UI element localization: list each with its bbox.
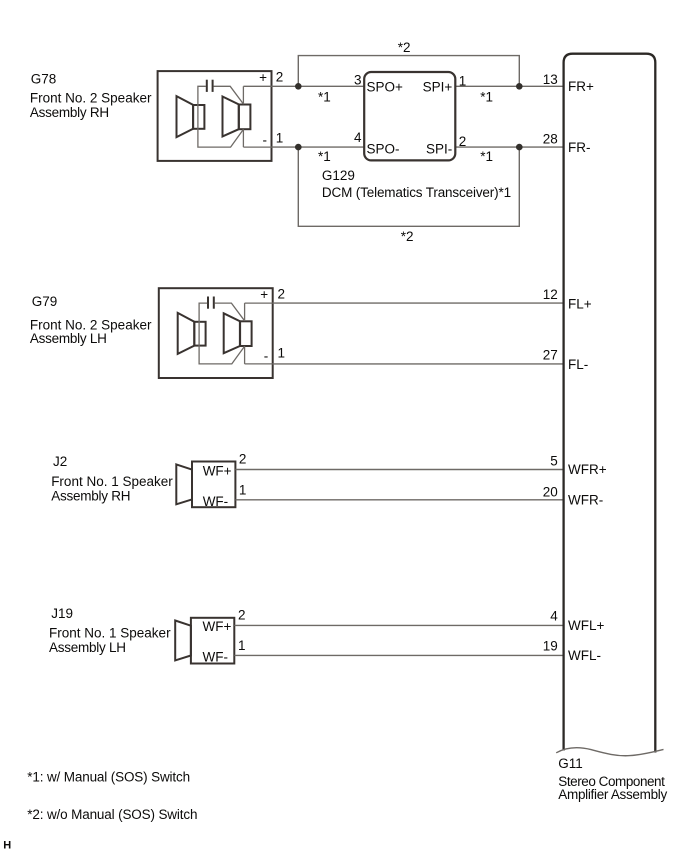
- svg-text:+: +: [260, 287, 268, 302]
- bypass wire top (w/o DCM): [298, 56, 519, 87]
- svg-text:2: 2: [459, 134, 467, 149]
- svg-text:SPI+: SPI+: [423, 79, 453, 94]
- svg-text:1: 1: [459, 74, 467, 89]
- svg-text:WF-: WF-: [203, 649, 228, 664]
- svg-text:*2: *2: [401, 229, 414, 244]
- svg-text:2: 2: [276, 69, 284, 84]
- svg-text:3: 3: [354, 73, 362, 88]
- svg-text:Assembly LH: Assembly LH: [49, 640, 126, 655]
- svg-text:WF+: WF+: [203, 464, 232, 479]
- svg-text:4: 4: [550, 609, 558, 624]
- G79 woofer speaker: [224, 313, 252, 353]
- svg-text:Assembly RH: Assembly RH: [51, 488, 130, 503]
- svg-text:2: 2: [278, 287, 286, 302]
- svg-text:FR-: FR-: [568, 140, 591, 155]
- DCM G129 box: [364, 72, 455, 160]
- amplifier torn bottom wavy line: [556, 748, 663, 756]
- svg-text:*1: w/ Manual (SOS) Switch: *1: w/ Manual (SOS) Switch: [27, 770, 190, 785]
- svg-text:WFL-: WFL-: [568, 648, 601, 663]
- svg-text:19: 19: [543, 639, 558, 654]
- svg-text:5: 5: [550, 454, 558, 469]
- svg-text:4: 4: [354, 130, 362, 145]
- bypass wire bottom (w/o DCM): [298, 147, 519, 226]
- svg-text:SPO+: SPO+: [367, 79, 404, 94]
- svg-text:WFL+: WFL+: [568, 618, 604, 633]
- svg-text:Front No. 2 Speaker: Front No. 2 Speaker: [30, 91, 152, 106]
- J19 speaker cone: [175, 621, 191, 661]
- capacitor C (G79): [208, 297, 214, 309]
- junction dot top left: [295, 83, 302, 90]
- svg-text:27: 27: [543, 348, 558, 363]
- svg-text:FL+: FL+: [568, 297, 592, 312]
- junction dot bottom left: [295, 144, 302, 151]
- svg-text:Assembly RH: Assembly RH: [30, 105, 109, 120]
- svg-text:DCM (Telematics Transceiver)*1: DCM (Telematics Transceiver)*1: [322, 185, 511, 200]
- svg-text:G129: G129: [322, 168, 355, 183]
- svg-text:2: 2: [238, 608, 246, 623]
- svg-text:Assembly LH: Assembly LH: [30, 331, 107, 346]
- svg-text:G79: G79: [32, 294, 58, 309]
- wire WFR+: [235, 469, 563, 471]
- junction dot top right: [516, 83, 523, 90]
- wire FR+ G78 to DCM: [272, 85, 365, 87]
- svg-text:G11: G11: [558, 756, 583, 771]
- svg-text:1: 1: [238, 638, 246, 653]
- connector G79 box: [159, 288, 273, 378]
- svg-text:+: +: [259, 70, 267, 85]
- svg-text:28: 28: [543, 131, 558, 146]
- wire WFR-: [235, 499, 563, 501]
- svg-text:*1: *1: [480, 149, 493, 164]
- svg-text:13: 13: [543, 72, 558, 87]
- connector J19 box: [191, 618, 234, 664]
- svg-text:*1: *1: [318, 149, 331, 164]
- G78 internal wiring: [198, 86, 272, 147]
- svg-text:Amplifier Assembly: Amplifier Assembly: [558, 787, 667, 802]
- G79 internal wiring: [199, 303, 273, 364]
- svg-text:Front No. 1 Speaker: Front No. 1 Speaker: [51, 474, 173, 489]
- svg-text:H: H: [3, 839, 11, 851]
- J2 speaker cone: [176, 464, 192, 504]
- svg-text:SPO-: SPO-: [367, 142, 400, 157]
- svg-text:1: 1: [239, 483, 247, 498]
- G78 woofer speaker: [223, 97, 251, 137]
- svg-text:*1: *1: [318, 89, 331, 104]
- svg-text:FL-: FL-: [568, 357, 588, 372]
- wire FR- DCM to amplifier: [455, 146, 563, 148]
- junction dot bottom right: [516, 144, 523, 151]
- svg-text:*1: *1: [480, 89, 493, 104]
- svg-text:1: 1: [278, 345, 286, 360]
- connector J2 box: [192, 462, 235, 508]
- connector G78 box: [158, 71, 272, 161]
- svg-text:FR+: FR+: [568, 79, 594, 94]
- capacitor C (G78): [207, 80, 213, 92]
- svg-text:J2: J2: [53, 454, 67, 469]
- svg-text:2: 2: [239, 452, 247, 467]
- amplifier G11 box: [564, 54, 656, 753]
- wire WFL+: [234, 624, 563, 626]
- wire FR- G78 to DCM: [272, 146, 365, 148]
- G79 tweeter speaker: [178, 313, 206, 354]
- svg-text:*2: w/o Manual (SOS) Switch: *2: w/o Manual (SOS) Switch: [27, 807, 197, 822]
- svg-text:WF-: WF-: [203, 494, 228, 509]
- svg-text:-: -: [264, 348, 269, 363]
- svg-text:WF+: WF+: [203, 619, 232, 634]
- wire WFL-: [234, 654, 563, 656]
- svg-text:12: 12: [543, 287, 558, 302]
- svg-text:WFR+: WFR+: [568, 462, 607, 477]
- svg-text:-: -: [263, 133, 268, 148]
- svg-text:WFR-: WFR-: [568, 493, 603, 508]
- svg-text:G78: G78: [31, 72, 57, 87]
- svg-text:1: 1: [276, 131, 284, 146]
- svg-text:J19: J19: [51, 606, 73, 621]
- wire FL+: [273, 302, 564, 304]
- svg-text:20: 20: [543, 485, 558, 500]
- wire FL-: [273, 363, 564, 365]
- svg-text:SPI-: SPI-: [426, 142, 452, 157]
- svg-text:*2: *2: [398, 40, 411, 55]
- G78 tweeter speaker: [177, 96, 205, 137]
- wire FR+ DCM to amplifier: [455, 85, 563, 87]
- svg-text:Front No. 1 Speaker: Front No. 1 Speaker: [49, 626, 171, 641]
